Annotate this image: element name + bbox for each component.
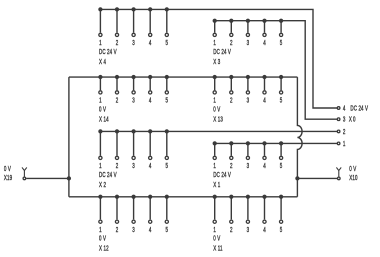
node X13 bus junctions bbox=[213, 75, 217, 79]
svg-text:DC 24 V: DC 24 V bbox=[99, 49, 117, 56]
svg-text:DC 24 V: DC 24 V bbox=[99, 172, 117, 179]
svg-text:1: 1 bbox=[213, 40, 216, 47]
svg-text:4: 4 bbox=[149, 163, 152, 170]
connector X11 pin contacts 1-5 bbox=[213, 220, 216, 223]
svg-text:3: 3 bbox=[247, 227, 250, 234]
svg-text:X 1: X 1 bbox=[213, 182, 220, 189]
svg-text:X 14: X 14 bbox=[99, 117, 109, 124]
wire X13 pin stubs bbox=[215, 77, 281, 90]
wire X1 bus to X0 pin 1 feed bbox=[215, 142, 337, 144]
wire X12 pin stubs bbox=[100, 197, 166, 220]
svg-text:5: 5 bbox=[165, 227, 168, 234]
node X2 bus junctions bbox=[98, 129, 102, 133]
svg-text:3: 3 bbox=[132, 163, 135, 170]
svg-text:0 V: 0 V bbox=[213, 236, 220, 243]
svg-text:2: 2 bbox=[116, 98, 119, 105]
svg-text:4: 4 bbox=[263, 98, 266, 105]
node X3 bus junctions bbox=[213, 19, 217, 23]
svg-text:2: 2 bbox=[230, 98, 233, 105]
svg-text:1: 1 bbox=[213, 98, 216, 105]
svg-text:X 13: X 13 bbox=[213, 117, 223, 124]
svg-text:1: 1 bbox=[213, 163, 216, 170]
svg-text:0 V: 0 V bbox=[99, 236, 106, 243]
test point X10 fork symbol bbox=[336, 167, 341, 176]
svg-text:3: 3 bbox=[132, 98, 135, 105]
wire X3 pin stubs bbox=[215, 21, 281, 33]
connector X0 pin 4 contact bbox=[337, 107, 340, 110]
wire X14 pin stubs bbox=[100, 77, 166, 90]
svg-text:4: 4 bbox=[343, 106, 346, 113]
svg-text:1: 1 bbox=[99, 227, 102, 234]
wire X1 pin stubs bbox=[215, 143, 281, 155]
wire X2 pin stubs bbox=[100, 131, 166, 155]
svg-text:1: 1 bbox=[99, 98, 102, 105]
svg-text:X 2: X 2 bbox=[99, 182, 106, 189]
svg-text:2: 2 bbox=[230, 40, 233, 47]
svg-text:0 V: 0 V bbox=[99, 106, 106, 113]
svg-text:X 11: X 11 bbox=[213, 246, 223, 253]
node X14 bus junctions bbox=[98, 75, 102, 79]
test point X19 fork symbol bbox=[22, 167, 27, 176]
wire 0V right vertical with hops over X2/X1 feeds bbox=[297, 77, 302, 197]
svg-text:X 4: X 4 bbox=[99, 59, 106, 66]
connector X2 pin contacts 1-5 bbox=[99, 156, 102, 159]
svg-text:2: 2 bbox=[116, 227, 119, 234]
svg-text:2: 2 bbox=[230, 227, 233, 234]
svg-text:X19: X19 bbox=[4, 175, 13, 182]
connector X0 pin 2 contact bbox=[337, 130, 340, 133]
svg-text:5: 5 bbox=[165, 40, 168, 47]
connector X0 pin 1 contact bbox=[337, 142, 340, 145]
svg-text:DC 24 V: DC 24 V bbox=[350, 106, 368, 113]
connector X4 pin contacts 1-5 bbox=[99, 33, 102, 36]
svg-text:1: 1 bbox=[213, 227, 216, 234]
svg-text:3: 3 bbox=[343, 117, 346, 124]
svg-text:3: 3 bbox=[132, 227, 135, 234]
connector X3 pin contacts 1-5 bbox=[213, 33, 216, 36]
svg-text:1: 1 bbox=[343, 141, 346, 148]
svg-text:5: 5 bbox=[280, 163, 283, 170]
node X10 junction on 0V right vertical bbox=[295, 176, 299, 180]
test point X19 contact bbox=[23, 177, 26, 180]
svg-text:1: 1 bbox=[99, 163, 102, 170]
svg-text:2: 2 bbox=[116, 163, 119, 170]
wire X4 bus to X0 pin 4 feed bbox=[100, 9, 337, 108]
wire 0V lower bus X12-X11 bbox=[69, 196, 298, 198]
wire 0V upper bus X14-X13 bbox=[69, 76, 298, 78]
svg-text:4: 4 bbox=[149, 98, 152, 105]
svg-text:2: 2 bbox=[230, 163, 233, 170]
svg-text:X 3: X 3 bbox=[213, 59, 220, 66]
svg-text:X 12: X 12 bbox=[99, 246, 109, 253]
svg-text:DC 24 V: DC 24 V bbox=[213, 49, 231, 56]
node X4 bus junctions bbox=[98, 7, 102, 11]
test point X10 contact bbox=[338, 177, 341, 180]
connector X12 pin contacts 1-5 bbox=[99, 220, 102, 223]
svg-text:3: 3 bbox=[247, 98, 250, 105]
connector X1 pin contacts 1-5 bbox=[213, 156, 216, 159]
svg-text:0 V: 0 V bbox=[213, 106, 220, 113]
svg-text:4: 4 bbox=[149, 227, 152, 234]
svg-text:2: 2 bbox=[116, 40, 119, 47]
svg-text:4: 4 bbox=[263, 40, 266, 47]
svg-text:2: 2 bbox=[343, 129, 346, 136]
svg-text:4: 4 bbox=[149, 40, 152, 47]
connector X14 pin contacts 1-5 bbox=[99, 91, 102, 94]
connector X13 pin contacts 1-5 bbox=[213, 91, 216, 94]
wire X11 pin stubs bbox=[215, 197, 281, 220]
node X1 bus junctions bbox=[213, 141, 217, 145]
svg-text:5: 5 bbox=[165, 98, 168, 105]
svg-text:0 V: 0 V bbox=[4, 166, 11, 173]
svg-text:DC 24 V: DC 24 V bbox=[213, 172, 231, 179]
svg-text:4: 4 bbox=[263, 163, 266, 170]
svg-text:5: 5 bbox=[280, 98, 283, 105]
wire X2 bus to X0 pin 2 feed bbox=[100, 130, 337, 132]
svg-text:3: 3 bbox=[247, 163, 250, 170]
node X11 bus junctions bbox=[213, 195, 217, 199]
svg-text:X 0: X 0 bbox=[349, 117, 356, 124]
node X12 bus junctions bbox=[98, 195, 102, 199]
wire X3 bus to X0 pin 3 feed bbox=[215, 21, 337, 120]
svg-text:0 V: 0 V bbox=[349, 166, 356, 173]
connector X0 pin 3 contact bbox=[337, 118, 340, 121]
svg-text:5: 5 bbox=[165, 163, 168, 170]
svg-text:1: 1 bbox=[99, 40, 102, 47]
svg-text:3: 3 bbox=[247, 40, 250, 47]
svg-text:5: 5 bbox=[280, 227, 283, 234]
svg-text:5: 5 bbox=[280, 40, 283, 47]
svg-text:3: 3 bbox=[132, 40, 135, 47]
wire X4 pin stubs bbox=[100, 9, 166, 32]
svg-text:4: 4 bbox=[263, 227, 266, 234]
svg-text:X10: X10 bbox=[349, 175, 358, 182]
wire X19 to 0V left vertical bbox=[26, 177, 69, 179]
wire 0V left vertical bbox=[68, 77, 70, 197]
node X19 junction on 0V left vertical bbox=[67, 176, 71, 180]
wire 0V right vertical to X10 bbox=[297, 177, 337, 179]
